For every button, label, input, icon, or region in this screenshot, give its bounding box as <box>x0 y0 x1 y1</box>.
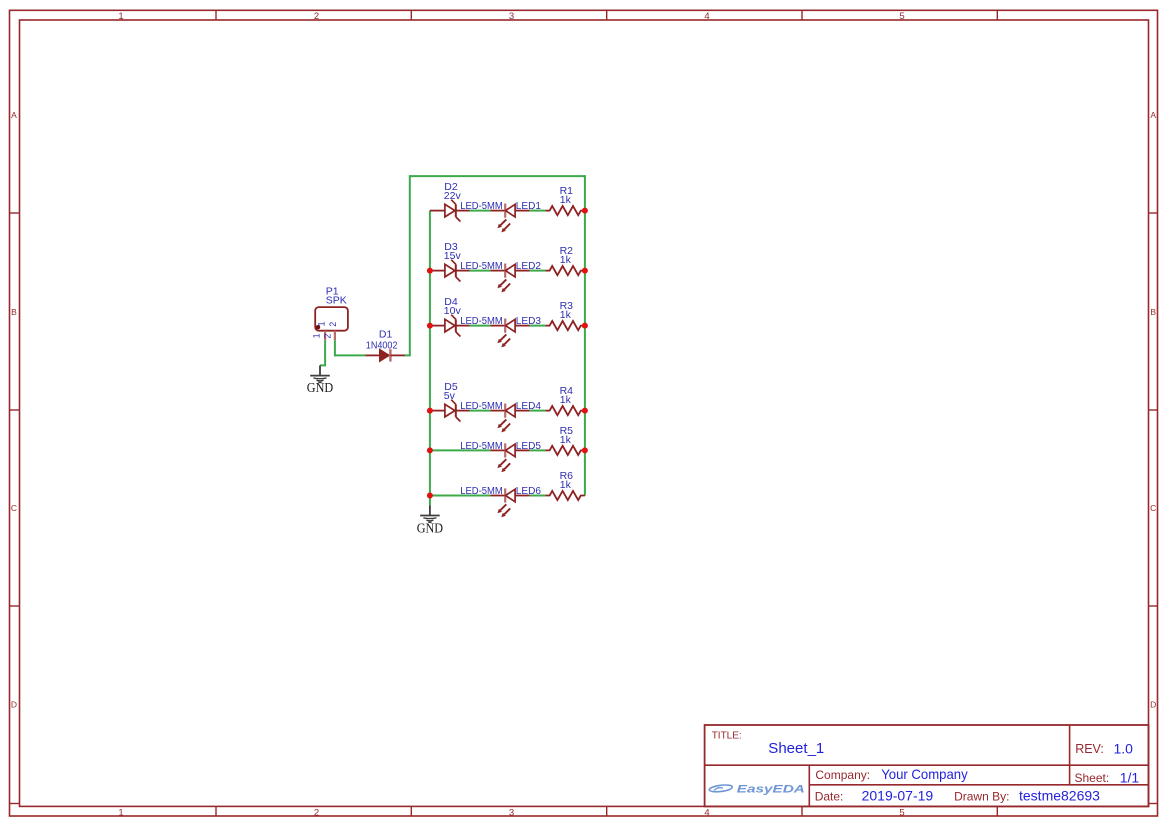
connector P1 pin1 stub <box>324 331 326 340</box>
wire row 3 zener-to-LED segment <box>470 325 491 327</box>
svg-text:1k: 1k <box>560 394 572 406</box>
svg-text:2: 2 <box>314 808 319 819</box>
svg-text:3: 3 <box>509 11 514 22</box>
LED LED6 <box>490 488 529 517</box>
LED LED1 <box>490 204 529 233</box>
resistor R5 <box>545 446 585 455</box>
svg-text:Company:: Company: <box>815 768 870 782</box>
label D5 value <box>444 381 458 402</box>
svg-text:LED-5MM: LED-5MM <box>460 401 503 412</box>
svg-text:SPK: SPK <box>326 294 347 306</box>
svg-text:1: 1 <box>311 333 321 338</box>
label R4 value <box>560 385 574 406</box>
label P1 SPK <box>326 286 347 307</box>
frame top column numbers 1-5 <box>118 11 904 22</box>
zener diode D4 <box>430 315 470 337</box>
label R1 value <box>560 185 574 206</box>
wire D1 cathode segment <box>405 354 411 356</box>
svg-text:1.0: 1.0 <box>1114 740 1134 756</box>
svg-text:Sheet_1: Sheet_1 <box>768 741 824 757</box>
svg-text:2: 2 <box>314 11 319 22</box>
LED LED4 <box>490 404 529 433</box>
svg-text:5v: 5v <box>444 390 456 402</box>
wire D1 anode segment <box>335 354 366 356</box>
svg-text:1: 1 <box>118 11 123 22</box>
title block outline <box>705 725 1149 806</box>
svg-text:4: 4 <box>704 11 709 22</box>
label D2 value <box>444 181 462 202</box>
wire P1 pin2 drop <box>334 340 336 356</box>
svg-text:C: C <box>1150 503 1156 513</box>
svg-text:10v: 10v <box>444 305 462 317</box>
svg-text:LED6: LED6 <box>516 486 542 497</box>
junction dots right rail <box>582 208 588 454</box>
svg-text:Sheet:: Sheet: <box>1075 771 1110 785</box>
label D3 value <box>444 241 462 262</box>
svg-text:5: 5 <box>899 11 904 22</box>
svg-text:REV:: REV: <box>1075 742 1104 756</box>
svg-text:1k: 1k <box>560 254 572 266</box>
svg-text:Your Company: Your Company <box>881 766 968 782</box>
svg-text:LED-5MM: LED-5MM <box>460 486 503 497</box>
frame left ruler ticks <box>10 213 20 804</box>
LED LED5 <box>490 443 529 472</box>
svg-text:D: D <box>1150 700 1156 710</box>
LED LED3 <box>490 319 529 348</box>
wire left feed rail vertical <box>409 175 411 355</box>
svg-text:1k: 1k <box>560 434 572 446</box>
wire row 5 rail-to-LED segment <box>430 449 490 451</box>
svg-text:LED-5MM: LED-5MM <box>460 201 503 212</box>
svg-text:Drawn By:: Drawn By: <box>954 789 1009 803</box>
svg-text:C: C <box>11 503 17 513</box>
wire row 6 LED-to-resistor segment <box>530 495 546 497</box>
label R3 value <box>560 300 574 321</box>
diode D1 <box>365 349 404 361</box>
svg-text:2019-07-19: 2019-07-19 <box>862 787 934 803</box>
title block divider vertical logo cell <box>808 765 810 806</box>
svg-text:Date:: Date: <box>815 789 844 803</box>
wire row 5 LED-to-resistor segment <box>530 449 546 451</box>
wire top rail <box>410 175 585 177</box>
svg-text:LED1: LED1 <box>516 201 542 212</box>
ground GND at bottom rail <box>420 505 440 522</box>
wire row 2 LED-to-resistor segment <box>530 270 546 272</box>
frame bottom ruler ticks <box>216 806 997 816</box>
svg-text:LED-5MM: LED-5MM <box>460 261 503 272</box>
svg-text:2: 2 <box>328 322 338 327</box>
frame right ruler ticks <box>1149 213 1158 804</box>
wire row 4 zener-to-LED segment <box>470 410 491 412</box>
resistor R6 <box>545 491 585 500</box>
zener diode D2 <box>430 200 470 222</box>
junction dots left rail <box>427 268 433 499</box>
wire right rail vertical <box>584 175 586 495</box>
svg-text:4: 4 <box>704 808 709 819</box>
wire row 1 zener-to-LED segment <box>470 210 491 212</box>
label R6 value <box>560 470 574 491</box>
title block divider horizontal full <box>705 764 1149 766</box>
label R5 value <box>560 425 574 446</box>
svg-text:A: A <box>1150 110 1156 120</box>
wire row 3 LED-to-resistor segment <box>530 325 546 327</box>
frame top ruler ticks <box>216 10 997 20</box>
frame bottom column numbers 1-5 <box>118 808 904 819</box>
svg-text:1: 1 <box>317 321 327 326</box>
svg-text:GND: GND <box>417 521 443 536</box>
svg-text:5: 5 <box>899 808 904 819</box>
ground GND near P1 <box>310 365 330 382</box>
svg-text:B: B <box>1150 307 1156 317</box>
svg-text:B: B <box>11 307 17 317</box>
svg-text:testme82693: testme82693 <box>1019 788 1100 804</box>
wire row 1 LED-to-resistor segment <box>530 210 546 212</box>
svg-text:TITLE:: TITLE: <box>712 731 742 742</box>
svg-text:22v: 22v <box>444 190 462 202</box>
svg-text:1N4002: 1N4002 <box>366 339 398 351</box>
connector P1 pin1 dot <box>316 325 320 329</box>
svg-text:3: 3 <box>509 808 514 819</box>
wire row 2 zener-to-LED segment <box>470 270 491 272</box>
resistor R3 <box>545 321 585 330</box>
frame right row letters A-D <box>1150 110 1156 710</box>
label D1 value <box>366 329 398 352</box>
svg-text:GND: GND <box>307 380 333 395</box>
wire row 6 rail-to-LED segment <box>430 495 490 497</box>
wire row 4 LED-to-resistor segment <box>530 410 546 412</box>
svg-text:LED-5MM: LED-5MM <box>460 441 503 452</box>
svg-text:LED4: LED4 <box>516 401 542 412</box>
svg-text:2: 2 <box>322 334 332 339</box>
connector P1 box <box>315 307 348 331</box>
svg-text:EasyEDA: EasyEDA <box>737 784 805 796</box>
zener diode D3 <box>430 260 470 282</box>
wire left distribution rail vertical <box>429 211 431 506</box>
svg-text:15v: 15v <box>444 250 462 262</box>
EasyEDA logo swoosh <box>709 784 733 793</box>
svg-text:LED3: LED3 <box>516 316 542 327</box>
resistor R2 <box>545 266 585 275</box>
svg-text:1k: 1k <box>560 309 572 321</box>
label R2 value <box>560 245 574 266</box>
label D4 value <box>444 296 462 317</box>
zener diode D5 <box>430 400 470 422</box>
svg-text:LED2: LED2 <box>516 261 542 272</box>
connector P1 pin2 stub <box>334 331 336 340</box>
svg-text:A: A <box>11 110 17 120</box>
svg-text:1: 1 <box>118 808 123 819</box>
resistor R1 <box>545 206 585 215</box>
svg-text:LED-5MM: LED-5MM <box>460 316 503 327</box>
LED LED2 <box>490 264 529 293</box>
svg-text:1/1: 1/1 <box>1120 769 1140 785</box>
svg-text:LED5: LED5 <box>516 441 542 452</box>
resistor R4 <box>545 406 585 415</box>
title block divider horizontal right part <box>809 784 1148 786</box>
wire P1 pin1 drop <box>320 340 325 365</box>
svg-text:1k: 1k <box>560 194 572 206</box>
svg-text:1k: 1k <box>560 479 572 491</box>
title block divider vertical rev column <box>1069 725 1071 785</box>
svg-text:D: D <box>11 700 17 710</box>
frame left row letters A-D <box>11 110 17 710</box>
